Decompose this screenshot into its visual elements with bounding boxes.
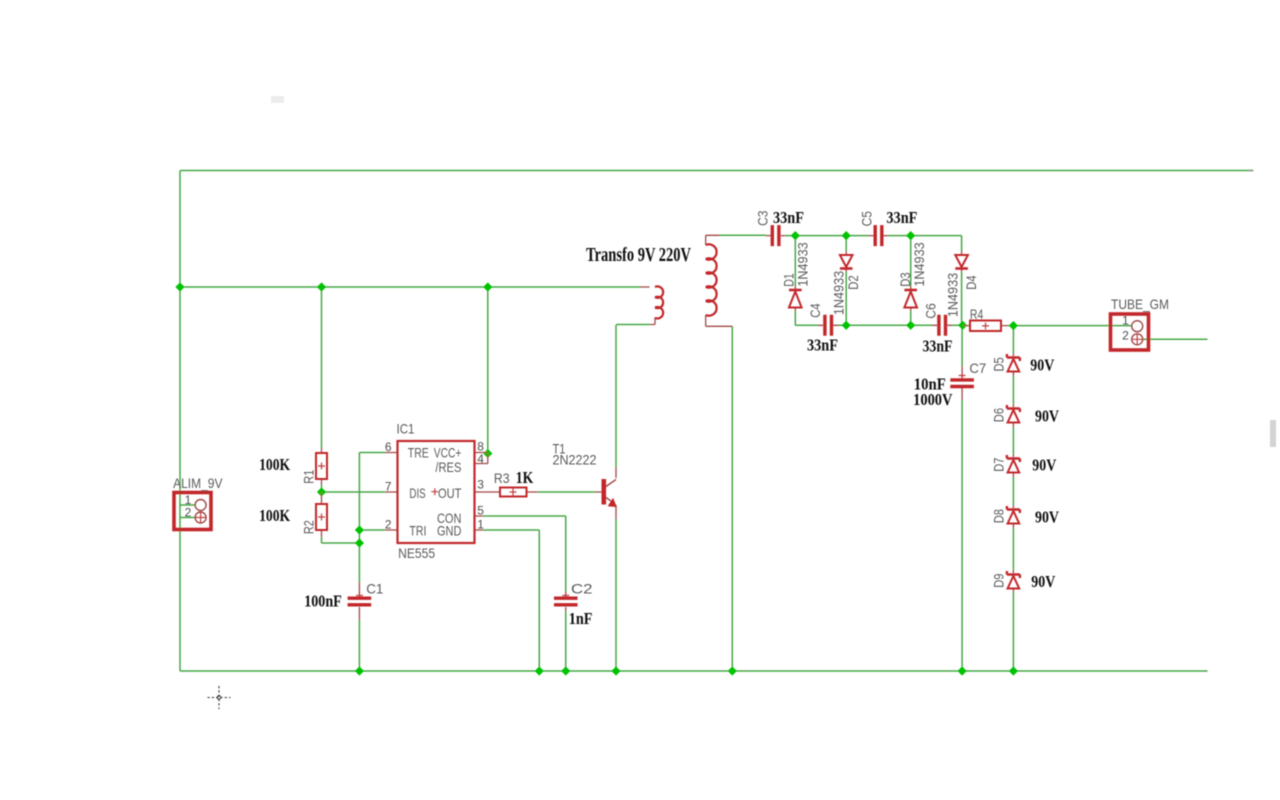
svg-text:5: 5 <box>477 504 484 518</box>
svg-text:90V: 90V <box>1035 507 1059 526</box>
svg-text:90V: 90V <box>1035 407 1059 426</box>
svg-text:1: 1 <box>477 518 484 532</box>
svg-text:R4: R4 <box>970 306 984 322</box>
svg-text:D8: D8 <box>991 509 1007 523</box>
svg-text:33nF: 33nF <box>886 208 917 227</box>
svg-text:C4: C4 <box>807 303 823 318</box>
svg-text:1000V: 1000V <box>913 390 952 409</box>
svg-text:D2: D2 <box>845 275 861 290</box>
svg-text:100K: 100K <box>259 506 290 525</box>
svg-text:1N4933: 1N4933 <box>911 242 927 286</box>
svg-text:D7: D7 <box>991 457 1007 471</box>
svg-text:VCC+: VCC+ <box>434 444 462 460</box>
svg-text:OUT: OUT <box>438 485 462 501</box>
svg-text:6: 6 <box>385 440 392 454</box>
svg-text:D6: D6 <box>991 408 1007 422</box>
svg-text:33nF: 33nF <box>807 336 838 355</box>
svg-text:C2: C2 <box>571 581 593 597</box>
svg-text:1nF: 1nF <box>569 609 593 628</box>
svg-text:C6: C6 <box>923 303 939 319</box>
svg-text:33nF: 33nF <box>923 337 953 356</box>
svg-text:TRI: TRI <box>409 522 426 538</box>
svg-text:DIS: DIS <box>409 485 425 501</box>
svg-text:NE555: NE555 <box>398 545 435 561</box>
svg-text:1N4933: 1N4933 <box>795 242 811 286</box>
svg-text:GND: GND <box>437 522 461 538</box>
svg-text:90V: 90V <box>1031 572 1055 591</box>
svg-text:/RES: /RES <box>435 459 461 475</box>
svg-text:D4: D4 <box>963 275 979 290</box>
svg-text:R1: R1 <box>300 470 316 484</box>
svg-text:C7: C7 <box>969 360 986 376</box>
svg-text:100nF: 100nF <box>304 592 342 611</box>
svg-text:C1: C1 <box>366 581 383 597</box>
svg-text:33nF: 33nF <box>773 208 804 227</box>
svg-text:1K: 1K <box>516 468 534 487</box>
svg-text:2: 2 <box>1122 329 1129 343</box>
svg-text:2: 2 <box>385 518 392 532</box>
svg-text:7: 7 <box>385 480 392 494</box>
svg-text:90V: 90V <box>1032 456 1056 475</box>
svg-text:2N2222: 2N2222 <box>553 452 597 468</box>
svg-text:90V: 90V <box>1030 355 1054 374</box>
svg-text:Transfo 9V 220V: Transfo 9V 220V <box>586 244 691 266</box>
svg-text:C5: C5 <box>859 211 875 227</box>
svg-text:1N4933: 1N4933 <box>831 271 847 315</box>
svg-text:D5: D5 <box>991 357 1007 371</box>
svg-text:R3: R3 <box>494 470 510 486</box>
svg-text:1: 1 <box>1122 314 1129 328</box>
svg-text:D9: D9 <box>991 573 1007 587</box>
svg-text:TRE: TRE <box>408 444 429 460</box>
svg-text:100K: 100K <box>259 455 290 474</box>
svg-text:TUBE_GM: TUBE_GM <box>1111 296 1169 312</box>
svg-text:2: 2 <box>185 505 192 519</box>
svg-text:ALIM_9V: ALIM_9V <box>173 475 223 491</box>
svg-text:1N4933: 1N4933 <box>944 273 960 317</box>
svg-text:R2: R2 <box>300 520 316 534</box>
svg-text:C3: C3 <box>755 210 771 226</box>
svg-text:3: 3 <box>477 477 484 491</box>
svg-text:IC1: IC1 <box>397 421 415 437</box>
svg-text:4: 4 <box>477 452 484 466</box>
